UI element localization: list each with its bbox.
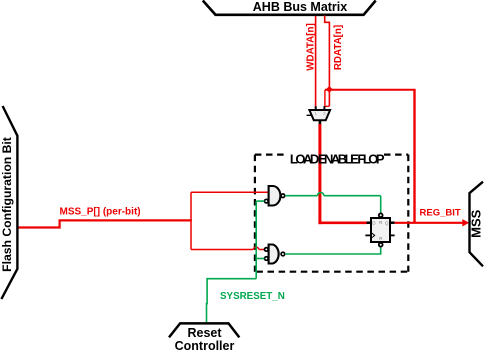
MSS tunnel shape [470,182,484,267]
flop D pin stub [367,221,371,224]
wire MSS_P branch vertical [190,192,192,249]
dashed box top-right segment [384,154,408,156]
wire RDATA branch horizontal to right [325,89,416,91]
gate U3 output bubble [281,252,285,256]
wire MSS_P main from flash shape [18,220,192,227]
wire branch to gate2 input A [191,249,253,251]
svg-text:Controller: Controller [175,339,235,353]
mux input pin stub 1 [315,106,317,110]
wire WDATA vertical [315,16,317,108]
svg-text:Q: Q [385,220,389,225]
wire SYSRESET_N from reset controller [207,279,257,323]
flop EN bubble top [379,213,383,217]
svg-text:Flash Configuration Bit: Flash Configuration Bit [0,137,14,272]
gate U3 input bubble (top) [265,248,269,252]
wire gate U2 output green left part [285,195,318,197]
dashed box bottom edge [256,271,408,273]
mux output stub [319,120,322,125]
AHB Bus Matrix tunnel shape [203,1,376,15]
dashed box left edge [254,155,256,272]
wire green vertical to gates [255,201,257,279]
wire REG_BIT [395,222,464,224]
junction diamond RDATA branch [326,86,333,93]
svg-text:REG_BIT: REG_BIT [420,207,461,218]
wire green hop over red [318,193,324,196]
flop stub bottom-right [390,234,395,236]
gate U2 input bubble (bottom) [265,199,269,203]
svg-text:MSS_P[] (per-bit): MSS_P[] (per-bit) [60,207,141,218]
svg-text:LOAD ENABLE FLOP: LOAD ENABLE FLOP [290,151,385,166]
arrowhead REG_BIT [462,219,469,226]
mux select tick [307,114,312,116]
dashed box LOAD ENABLE FLOP: top-left segment [255,154,288,156]
gate U3 input bubble (bottom) [265,257,269,261]
wire green down to flop EN [380,196,382,214]
nand gate U3 body [269,245,279,264]
wire RDATA loop left leg [325,90,329,106]
mux input pin stub 2 [323,106,325,110]
flop clk wedge [372,233,375,237]
wire gate U3 output green [285,247,381,254]
flop R bubble bottom [379,243,383,247]
mux U1 body [309,110,330,120]
Flash Configuration Bit tunnel shape [1,106,17,299]
flop clk stub [365,234,371,236]
wire branch to gate1 input A [191,191,269,193]
gate U2 output bubble [281,194,285,198]
wire gate U2 output green right part [324,195,381,197]
svg-text:SYSRESET_N: SYSRESET_N [220,291,285,302]
svg-text:WDATA[n]: WDATA[n] [306,23,317,71]
dashed box right edge [407,155,409,272]
wire thick horizontal to flop D [318,222,367,225]
wire green to gate U3 bottom bubble [256,258,264,260]
wire mux output thick vertical [318,124,321,224]
wire hop red over green [253,247,259,249]
flip-flop U4 body [371,218,390,242]
wire green to gate U2 bottom bubble [256,200,264,202]
wire red hop to gate2 bubble [259,249,265,251]
svg-text:Reset: Reset [187,326,222,340]
flop Q pin stub [390,221,395,224]
nand gate U2 body [269,186,281,206]
svg-text:RDATA[n]: RDATA[n] [333,25,344,70]
wire right vertical down to REG_BIT [413,90,415,223]
svg-text:MSS: MSS [469,209,484,238]
svg-text:AHB Bus Matrix: AHB Bus Matrix [253,0,348,14]
wire RDATA vertical [325,16,330,107]
Reset Controller tunnel shape [169,323,239,337]
